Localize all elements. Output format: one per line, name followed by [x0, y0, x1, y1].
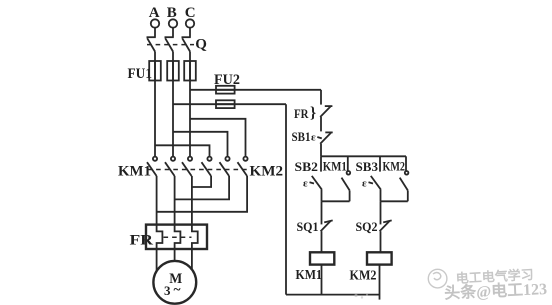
wire KM2 pole2 output to B node — [175, 176, 230, 199]
wire bottom rail — [286, 294, 380, 296]
wire KM2 pole3 output to A node — [157, 176, 248, 212]
terminal B — [167, 5, 177, 37]
svg-text:3: 3 — [164, 283, 171, 298]
wire jog B to KM2 pole 2 — [173, 132, 228, 157]
wire SB3 down — [380, 190, 382, 202]
switch Q pole 1 — [147, 37, 156, 51]
FR heater element 3 — [192, 225, 198, 249]
wire jog A to KM2 pole 1 — [155, 145, 210, 156]
coil KM1 — [310, 252, 334, 264]
wire left control rail — [285, 104, 287, 294]
svg-text:KM2: KM2 — [383, 159, 406, 174]
FR heater box — [146, 225, 207, 249]
svg-text:B: B — [167, 5, 177, 21]
svg-text:SB1: SB1 — [292, 129, 311, 144]
coil KM2 — [367, 252, 392, 264]
restore fuse through-wires — [155, 61, 190, 81]
wire B to FU2 lower and over to left control rail — [173, 103, 286, 105]
fuse FU1 pole 1 — [149, 61, 161, 81]
svg-text:ε: ε — [362, 177, 367, 189]
wire KM1 coil to bottom rail — [321, 265, 323, 295]
KM2 main contact pole 3 — [238, 157, 248, 176]
svg-text:Q: Q — [195, 36, 207, 52]
wire to motor 3 — [191, 249, 193, 270]
wire C to FU2 upper and over to control — [190, 89, 321, 91]
svg-text:SQ1: SQ1 — [297, 219, 319, 234]
FR NC contact — [320, 106, 332, 117]
switch Q pole 2 — [165, 37, 174, 51]
svg-text:FR: FR — [294, 106, 309, 121]
SB2 NO pushbutton contact — [303, 156, 322, 189]
switch Q pole 3 — [182, 37, 191, 51]
wire SB1 to split node — [320, 144, 322, 157]
SB1 NC pushbutton contact — [311, 132, 333, 144]
wire SB2 down — [321, 190, 323, 202]
svg-text:SQ2: SQ2 — [356, 219, 378, 234]
watermark logo — [428, 269, 447, 288]
fuse FU1 pole 2 — [167, 61, 179, 81]
svg-text:SB2: SB2 — [295, 159, 319, 174]
KM1 main contact pole 1 — [147, 157, 157, 176]
svg-text:KM1: KM1 — [323, 159, 347, 174]
wire merge branch 2 — [381, 200, 408, 202]
wire merge branch 1 — [322, 200, 350, 202]
svg-text:}: } — [310, 105, 316, 122]
wire to motor 2 — [174, 249, 176, 261]
wire branch 2 to SQ2 — [380, 201, 382, 224]
SQ2 limit switch NC contact — [380, 220, 392, 231]
fuse FU1 pole 3 — [184, 61, 196, 81]
wire to motor 1 — [156, 249, 158, 271]
svg-text:A: A — [149, 5, 160, 21]
KM1 main contact pole 2 — [165, 157, 175, 176]
svg-text:ε: ε — [311, 132, 316, 144]
fuse FU2 lower — [216, 100, 235, 108]
wire branch 1 to SQ1 — [321, 201, 323, 224]
wire jog C to KM2 pole 3 — [190, 119, 246, 157]
FR heater linkage (dashed) — [164, 236, 192, 238]
switch Q linkage (dashed) — [147, 44, 194, 46]
wire KM2 pole1 output to C node — [192, 176, 211, 187]
contact linkage (dashed) — [148, 169, 250, 171]
motor M — [153, 261, 196, 304]
wire FU2 upper to FR contact — [320, 90, 322, 105]
KM2 main contact pole 2 — [220, 157, 230, 176]
FR heater element 1 — [157, 225, 163, 249]
wire KM1 outputs down — [156, 176, 158, 225]
terminal C — [185, 5, 196, 37]
svg-text:KM2: KM2 — [250, 164, 284, 180]
wire FR to SB1 — [320, 117, 322, 131]
smudge dots — [354, 294, 368, 299]
wire SQ1 to KM1 coil — [321, 231, 323, 252]
KM2 auxiliary NO contact — [400, 156, 409, 201]
svg-text:C: C — [185, 5, 196, 21]
terminal A — [149, 5, 160, 37]
SB3 NO pushbutton contact — [362, 156, 381, 189]
wire KM2 coil to bottom rail — [379, 265, 381, 300]
KM1 main contact pole 3 — [182, 157, 192, 176]
wire phase C down — [189, 52, 191, 157]
svg-text:~: ~ — [174, 282, 181, 297]
SQ1 limit switch NC contact — [321, 220, 333, 231]
svg-text:ε: ε — [303, 177, 308, 189]
svg-text:FR: FR — [130, 233, 154, 249]
svg-text:KM1: KM1 — [296, 268, 323, 283]
svg-text:SB3: SB3 — [356, 159, 379, 174]
svg-text:KM1: KM1 — [118, 164, 151, 180]
wire phase A down — [154, 52, 156, 157]
FR heater element 2 — [175, 225, 181, 249]
fuse FU2 upper — [216, 86, 235, 94]
wire phase B down — [172, 52, 174, 157]
wire split rail — [321, 155, 406, 157]
wire SQ2 to KM2 coil — [380, 231, 382, 252]
svg-text:KM2: KM2 — [350, 269, 377, 284]
KM2 main contact pole 1 — [202, 157, 212, 176]
KM1 auxiliary NO contact — [342, 156, 351, 201]
